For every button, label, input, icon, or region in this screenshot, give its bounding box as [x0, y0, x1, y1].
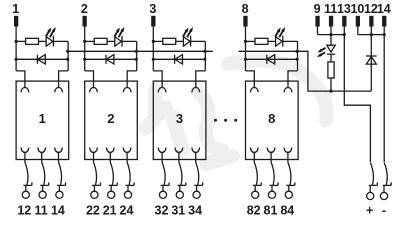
svg-text:12: 12 [364, 2, 378, 16]
svg-text:11: 11 [324, 2, 337, 16]
svg-text:14: 14 [51, 204, 65, 218]
svg-text:82: 82 [247, 204, 261, 218]
svg-text:11: 11 [34, 204, 47, 218]
svg-text:21: 21 [103, 204, 117, 218]
svg-text:8: 8 [268, 111, 275, 126]
svg-text:12: 12 [17, 204, 31, 218]
svg-text:32: 32 [155, 204, 169, 218]
svg-text:81: 81 [264, 204, 278, 218]
svg-text:13: 13 [337, 2, 351, 16]
svg-text:3: 3 [149, 2, 156, 16]
svg-text:8: 8 [242, 2, 249, 16]
svg-text:31: 31 [171, 204, 185, 218]
svg-text:3: 3 [176, 111, 183, 126]
svg-text:1: 1 [39, 111, 46, 126]
svg-text:22: 22 [86, 204, 100, 218]
svg-text:2: 2 [107, 111, 114, 126]
svg-text:9: 9 [314, 2, 321, 16]
svg-text:14: 14 [377, 2, 391, 16]
svg-text:10: 10 [350, 2, 364, 16]
svg-text:-: - [382, 203, 386, 217]
svg-text:1: 1 [12, 2, 19, 16]
svg-text:24: 24 [120, 204, 134, 218]
svg-text:84: 84 [280, 204, 294, 218]
svg-text:2: 2 [81, 2, 88, 16]
svg-text:34: 34 [188, 204, 202, 218]
svg-text:+: + [366, 203, 373, 217]
